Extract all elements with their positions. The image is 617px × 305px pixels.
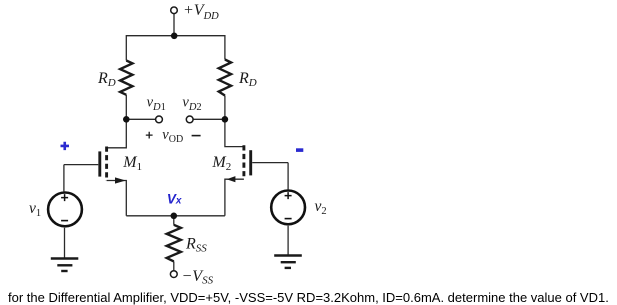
svg-text:RSS: RSS [185, 236, 207, 255]
svg-text:Vx: Vx [167, 191, 182, 206]
svg-text:vD1: vD1 [147, 95, 166, 114]
svg-text:vD2: vD2 [182, 95, 201, 114]
svg-text:vOD: vOD [162, 127, 183, 145]
svg-text:RD: RD [238, 70, 257, 89]
svg-text:v1: v1 [29, 200, 41, 219]
svg-text:RD: RD [97, 70, 116, 89]
svg-text:v2: v2 [315, 198, 327, 217]
svg-text:−VSS: −VSS [182, 268, 214, 287]
svg-text:M2: M2 [211, 154, 231, 173]
svg-text:+VDD: +VDD [183, 2, 219, 22]
svg-text:M1: M1 [122, 154, 142, 173]
